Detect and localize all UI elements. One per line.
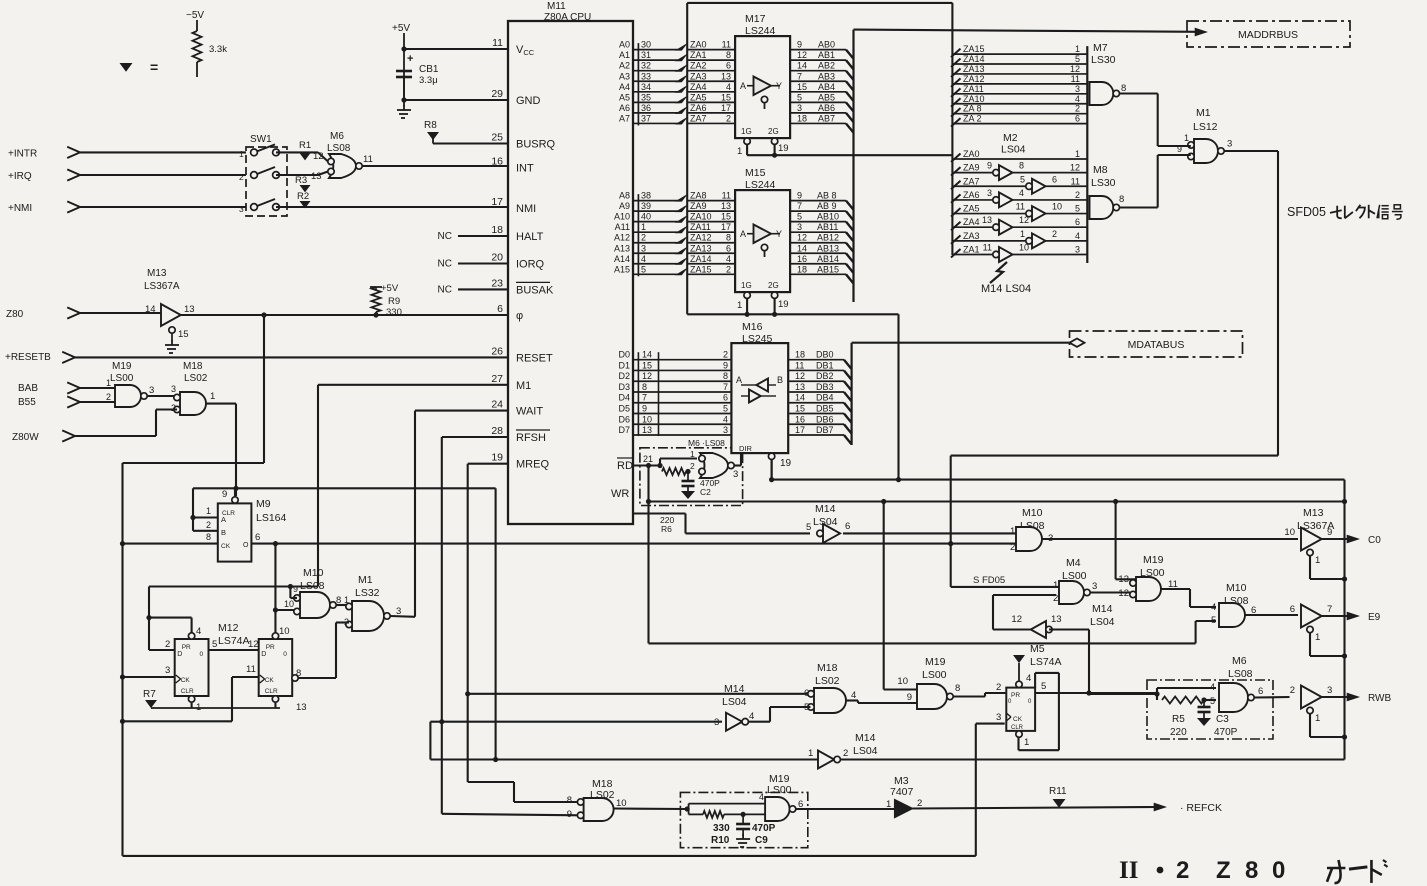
- svg-text:LS00: LS00: [922, 669, 947, 681]
- svg-text:1: 1: [1020, 229, 1025, 239]
- svg-text:R7: R7: [143, 689, 156, 700]
- svg-text:SFD05: SFD05: [1287, 205, 1326, 219]
- svg-text:35: 35: [641, 92, 651, 102]
- svg-text:M14: M14: [815, 503, 836, 515]
- svg-text:1: 1: [1184, 133, 1189, 143]
- svg-text:A15: A15: [614, 264, 630, 274]
- svg-text:ZA4: ZA4: [690, 82, 707, 92]
- svg-text:7407: 7407: [890, 786, 914, 798]
- svg-text:ZA3: ZA3: [963, 231, 980, 241]
- svg-text:CLR: CLR: [181, 688, 194, 695]
- svg-text:4: 4: [1075, 231, 1080, 241]
- svg-text:PR: PR: [266, 644, 275, 651]
- svg-text:18: 18: [795, 350, 805, 360]
- svg-text:13: 13: [1118, 574, 1129, 585]
- svg-text:A14: A14: [614, 254, 630, 264]
- svg-text:AB14: AB14: [817, 254, 839, 264]
- svg-text:D5: D5: [618, 404, 630, 414]
- svg-text:+5V: +5V: [381, 283, 399, 294]
- svg-text:LS367A: LS367A: [144, 281, 180, 292]
- svg-text:25: 25: [491, 132, 503, 144]
- svg-text:LS02: LS02: [184, 373, 208, 384]
- svg-text:14: 14: [642, 350, 652, 360]
- svg-text:19: 19: [780, 458, 792, 469]
- svg-text:A: A: [736, 375, 742, 385]
- svg-text:8: 8: [1121, 83, 1126, 94]
- svg-text:R9: R9: [388, 296, 400, 307]
- svg-text:1: 1: [690, 449, 695, 459]
- svg-text:M9: M9: [256, 498, 271, 510]
- svg-text:A2: A2: [619, 61, 630, 71]
- svg-text:28: 28: [491, 425, 503, 437]
- svg-text:ZA 2: ZA 2: [963, 114, 982, 124]
- svg-text:M18: M18: [183, 361, 203, 372]
- svg-text:+RESETB: +RESETB: [5, 352, 51, 363]
- svg-text:M10: M10: [303, 567, 324, 579]
- svg-text:16: 16: [797, 254, 807, 264]
- svg-text:0: 0: [1272, 857, 1285, 884]
- svg-text:1: 1: [1053, 580, 1058, 591]
- svg-text:12: 12: [642, 371, 652, 381]
- svg-text:9: 9: [723, 360, 728, 370]
- svg-text:17: 17: [721, 103, 731, 113]
- svg-text:10: 10: [284, 599, 294, 609]
- svg-text:8: 8: [642, 382, 647, 392]
- svg-text:8: 8: [1119, 194, 1124, 205]
- svg-text:4: 4: [749, 711, 754, 722]
- svg-text:3: 3: [1075, 244, 1080, 254]
- svg-text:SW1: SW1: [250, 134, 272, 145]
- svg-text:3.3k: 3.3k: [209, 44, 227, 55]
- svg-text:NC: NC: [438, 231, 452, 242]
- svg-text:5: 5: [212, 639, 217, 650]
- svg-text:3: 3: [1327, 685, 1332, 696]
- svg-text:R10: R10: [711, 835, 730, 846]
- svg-text:M14: M14: [724, 683, 745, 695]
- svg-text:19: 19: [778, 143, 789, 154]
- svg-text:LS00: LS00: [767, 784, 792, 796]
- svg-text:AB4: AB4: [818, 82, 835, 92]
- svg-text:6: 6: [1290, 604, 1295, 615]
- svg-text:4: 4: [1075, 94, 1080, 104]
- svg-text:16: 16: [795, 414, 805, 424]
- svg-text:9: 9: [1327, 527, 1332, 538]
- svg-text:NMI: NMI: [516, 203, 536, 215]
- svg-text:D: D: [261, 651, 266, 658]
- svg-text:14: 14: [797, 61, 807, 71]
- svg-text:INT: INT: [516, 163, 534, 175]
- svg-text:13: 13: [982, 215, 992, 225]
- svg-text:1: 1: [1315, 555, 1320, 566]
- svg-text:3: 3: [1092, 581, 1097, 592]
- svg-text:15: 15: [721, 92, 731, 102]
- svg-text:11: 11: [1071, 176, 1080, 186]
- svg-text:ZA9: ZA9: [690, 201, 707, 211]
- svg-text:DB1: DB1: [816, 360, 834, 370]
- svg-text:5: 5: [1020, 174, 1025, 184]
- svg-text:ZA 8: ZA 8: [963, 104, 982, 114]
- svg-text:AB5: AB5: [818, 92, 835, 102]
- svg-text:D2: D2: [618, 371, 630, 381]
- svg-text:11: 11: [246, 664, 256, 675]
- svg-text:RESET: RESET: [516, 352, 553, 364]
- svg-text:29: 29: [491, 88, 503, 100]
- svg-text:RD: RD: [617, 460, 633, 472]
- svg-text:2: 2: [1010, 542, 1015, 553]
- svg-text:13: 13: [642, 425, 652, 435]
- svg-text:39: 39: [641, 201, 651, 211]
- svg-text:1: 1: [1315, 713, 1320, 724]
- svg-text:6: 6: [497, 303, 503, 315]
- svg-text:M5: M5: [1030, 643, 1045, 655]
- svg-text:4: 4: [1210, 682, 1215, 692]
- svg-text:M2: M2: [1003, 132, 1018, 144]
- svg-text:32: 32: [641, 61, 651, 71]
- svg-text:A3: A3: [619, 71, 630, 81]
- svg-text:M14: M14: [855, 732, 876, 744]
- svg-text:8: 8: [1245, 857, 1258, 884]
- svg-text:M11: M11: [547, 1, 566, 12]
- svg-text:1: 1: [886, 799, 891, 810]
- svg-text:37: 37: [641, 113, 651, 123]
- svg-text:3: 3: [641, 243, 646, 253]
- svg-text:LS74A: LS74A: [218, 635, 250, 647]
- svg-text:AB11: AB11: [817, 222, 838, 232]
- svg-text:1: 1: [239, 149, 244, 159]
- svg-text:R2: R2: [297, 191, 309, 202]
- svg-text:5: 5: [1075, 54, 1080, 64]
- svg-text:2: 2: [1075, 104, 1080, 114]
- svg-text:2: 2: [1052, 229, 1057, 239]
- svg-text:ZA8: ZA8: [690, 191, 707, 201]
- svg-text:13: 13: [1051, 614, 1062, 625]
- svg-text:LS244: LS244: [745, 179, 776, 191]
- svg-text:3: 3: [987, 188, 992, 198]
- svg-text:40: 40: [641, 212, 651, 222]
- svg-text:O: O: [243, 542, 249, 549]
- svg-text:12: 12: [1019, 215, 1029, 225]
- svg-text:PR: PR: [1011, 692, 1020, 699]
- svg-text:9: 9: [222, 489, 227, 500]
- svg-text:19: 19: [778, 299, 789, 310]
- svg-text:DB5: DB5: [816, 404, 834, 414]
- svg-text:11: 11: [1016, 202, 1025, 212]
- svg-text:15: 15: [797, 82, 807, 92]
- svg-text:ZA7: ZA7: [690, 113, 707, 123]
- svg-text:AB 9: AB 9: [817, 201, 837, 211]
- svg-text:5: 5: [806, 522, 811, 533]
- svg-text:M18: M18: [817, 662, 838, 674]
- svg-text:+5V: +5V: [392, 23, 410, 34]
- svg-text:ZA12: ZA12: [963, 74, 985, 84]
- svg-text:LS32: LS32: [355, 587, 380, 599]
- svg-text:6: 6: [1075, 114, 1080, 124]
- svg-text:LS00: LS00: [110, 373, 134, 384]
- svg-text:BUSAK: BUSAK: [516, 284, 554, 296]
- svg-text:AB10: AB10: [817, 212, 839, 222]
- svg-text:27: 27: [491, 373, 503, 385]
- svg-text:7: 7: [797, 201, 802, 211]
- svg-text:10: 10: [279, 626, 290, 637]
- svg-text:15: 15: [178, 329, 189, 340]
- svg-text:M14 LS04: M14 LS04: [981, 283, 1031, 295]
- svg-text:A7: A7: [619, 113, 630, 123]
- svg-text:A13: A13: [614, 243, 630, 253]
- svg-text:10: 10: [642, 414, 652, 424]
- svg-text:A: A: [740, 229, 746, 239]
- svg-text:A12: A12: [614, 233, 630, 243]
- svg-text:D0: D0: [618, 350, 630, 360]
- svg-text:220: 220: [1170, 727, 1187, 738]
- svg-text:6: 6: [1258, 686, 1263, 697]
- svg-text:12: 12: [1011, 614, 1022, 625]
- svg-text:2: 2: [917, 798, 922, 809]
- svg-text:5: 5: [797, 212, 802, 222]
- svg-text:B: B: [221, 528, 226, 537]
- svg-text:3.3μ: 3.3μ: [419, 75, 438, 86]
- svg-text:1: 1: [1024, 737, 1029, 748]
- svg-text:11: 11: [795, 360, 804, 370]
- svg-text:14: 14: [795, 393, 805, 403]
- svg-text:1: 1: [641, 222, 646, 232]
- svg-text:12: 12: [248, 639, 259, 650]
- svg-text:A11: A11: [615, 222, 630, 232]
- svg-text:+NMI: +NMI: [8, 203, 32, 214]
- svg-text:2: 2: [996, 682, 1001, 693]
- svg-text:14: 14: [145, 304, 156, 315]
- svg-text:LS244: LS244: [745, 25, 776, 37]
- svg-text:ZA4: ZA4: [963, 217, 980, 227]
- svg-text:M7: M7: [1093, 42, 1108, 54]
- svg-text:LS04: LS04: [1090, 616, 1115, 628]
- svg-text:ZA7: ZA7: [963, 176, 980, 186]
- svg-text:12: 12: [797, 50, 807, 60]
- svg-text:9: 9: [797, 191, 802, 201]
- svg-text:6: 6: [726, 61, 731, 71]
- svg-text:15: 15: [642, 360, 652, 370]
- svg-text:ZA6: ZA6: [690, 103, 707, 113]
- svg-text:M1: M1: [516, 380, 531, 392]
- svg-text:13: 13: [296, 702, 307, 713]
- svg-text:3: 3: [723, 425, 728, 435]
- svg-text:AB0: AB0: [818, 40, 835, 50]
- svg-text:AB7: AB7: [818, 113, 835, 123]
- svg-text:+IRQ: +IRQ: [8, 171, 32, 182]
- svg-text:RWB: RWB: [1368, 693, 1391, 704]
- svg-text:ZA5: ZA5: [690, 92, 707, 102]
- svg-text:15: 15: [795, 404, 805, 414]
- svg-text:12: 12: [1070, 163, 1080, 173]
- svg-text:9: 9: [987, 161, 992, 171]
- svg-text:3: 3: [797, 103, 802, 113]
- svg-text:PR: PR: [182, 644, 191, 651]
- svg-text:DB4: DB4: [816, 393, 834, 403]
- svg-text:2: 2: [1075, 190, 1080, 200]
- svg-text:M12: M12: [218, 622, 239, 634]
- svg-text:15: 15: [721, 212, 731, 222]
- svg-text:A1: A1: [619, 50, 630, 60]
- svg-text:+: +: [407, 53, 413, 65]
- svg-text:A: A: [740, 81, 746, 91]
- svg-text:7: 7: [797, 71, 802, 81]
- svg-text:4: 4: [1026, 673, 1031, 684]
- svg-text:2G: 2G: [768, 281, 779, 290]
- svg-text:12: 12: [1118, 588, 1129, 599]
- svg-text:BUSRQ: BUSRQ: [516, 139, 556, 151]
- svg-text:A5: A5: [619, 92, 630, 102]
- svg-text:0: 0: [200, 651, 204, 658]
- svg-text:AB3: AB3: [818, 71, 835, 81]
- svg-text:3: 3: [733, 469, 738, 480]
- svg-text:M1: M1: [358, 574, 373, 586]
- svg-text:R3: R3: [295, 175, 307, 186]
- svg-text:14: 14: [797, 243, 807, 253]
- svg-text:E9: E9: [1368, 612, 1381, 623]
- svg-text:MREQ: MREQ: [516, 459, 549, 471]
- svg-text:A4: A4: [619, 82, 630, 92]
- svg-text:CK: CK: [1013, 716, 1023, 723]
- svg-text:7: 7: [723, 382, 728, 392]
- svg-text:M6: M6: [330, 131, 344, 142]
- svg-text:2: 2: [690, 461, 695, 471]
- svg-text:9: 9: [642, 404, 647, 414]
- svg-text:MDATABUS: MDATABUS: [1128, 339, 1185, 351]
- svg-text:D7: D7: [618, 425, 630, 435]
- svg-text:1G: 1G: [741, 281, 752, 290]
- svg-text:3: 3: [1075, 84, 1080, 94]
- svg-text:4: 4: [759, 792, 764, 802]
- svg-text:23: 23: [491, 277, 503, 289]
- svg-text:A8: A8: [619, 191, 630, 201]
- svg-text:8: 8: [726, 233, 731, 243]
- svg-text:Z80W: Z80W: [12, 432, 39, 443]
- svg-text:5: 5: [1075, 204, 1080, 214]
- svg-text:18: 18: [491, 224, 503, 236]
- svg-text:LS04: LS04: [1001, 144, 1026, 156]
- svg-text:19: 19: [491, 452, 503, 464]
- svg-text:D6: D6: [618, 414, 630, 424]
- svg-text:ZA13: ZA13: [690, 243, 712, 253]
- svg-text:ZA10: ZA10: [963, 94, 985, 104]
- svg-text:−5V: −5V: [186, 10, 204, 21]
- svg-text:470P: 470P: [752, 823, 776, 834]
- svg-text:6: 6: [1052, 174, 1057, 184]
- svg-text:24: 24: [491, 399, 503, 411]
- svg-text:MADDRBUS: MADDRBUS: [1238, 29, 1298, 41]
- svg-text:LS08: LS08: [1228, 668, 1253, 680]
- svg-text:LS04: LS04: [722, 696, 747, 708]
- svg-text:IORQ: IORQ: [516, 259, 545, 271]
- svg-text:4: 4: [726, 254, 731, 264]
- svg-text:5: 5: [1041, 681, 1046, 692]
- svg-text:R8: R8: [424, 120, 437, 131]
- svg-text:A0: A0: [619, 40, 630, 50]
- svg-text:3: 3: [996, 712, 1001, 723]
- svg-text:7: 7: [642, 393, 647, 403]
- svg-text:M1: M1: [1196, 107, 1211, 119]
- svg-text:ZA5: ZA5: [963, 204, 980, 214]
- svg-text:11: 11: [722, 40, 731, 50]
- svg-text:ZA1: ZA1: [963, 244, 980, 254]
- svg-text:R5: R5: [1172, 714, 1185, 725]
- svg-text:D: D: [177, 651, 182, 658]
- svg-text:AB15: AB15: [817, 264, 839, 274]
- svg-text:10: 10: [1019, 242, 1029, 252]
- svg-text:11: 11: [363, 154, 373, 165]
- svg-text:470P: 470P: [1214, 727, 1238, 738]
- svg-text:AB6: AB6: [818, 103, 835, 113]
- svg-text:4: 4: [1019, 188, 1024, 198]
- svg-text:ZA9: ZA9: [963, 163, 980, 173]
- svg-text:13: 13: [311, 171, 322, 182]
- svg-text:ZA15: ZA15: [690, 264, 712, 274]
- svg-text:2: 2: [106, 392, 111, 402]
- svg-text:LS30: LS30: [1091, 54, 1116, 66]
- svg-text:M15: M15: [745, 167, 766, 179]
- svg-text:R6: R6: [661, 524, 672, 534]
- svg-text:DB7: DB7: [816, 425, 834, 435]
- svg-text:2: 2: [726, 113, 731, 123]
- svg-text:ZA15: ZA15: [963, 44, 985, 54]
- svg-text:ZA0: ZA0: [690, 40, 707, 50]
- svg-text:CLR: CLR: [265, 688, 278, 695]
- svg-text:1: 1: [206, 506, 211, 516]
- svg-text:M19: M19: [925, 656, 946, 668]
- svg-text:B55: B55: [18, 397, 36, 408]
- svg-text:CK: CK: [265, 677, 275, 684]
- svg-text:M19: M19: [1143, 554, 1164, 566]
- svg-text:2: 2: [641, 233, 646, 243]
- svg-text:AB 8: AB 8: [817, 191, 837, 201]
- svg-text:φ: φ: [516, 310, 523, 322]
- svg-text:9: 9: [907, 692, 912, 703]
- svg-text:4: 4: [851, 690, 856, 701]
- svg-text:3: 3: [165, 665, 170, 676]
- svg-text:LS04: LS04: [853, 745, 878, 757]
- svg-text:5: 5: [641, 264, 646, 274]
- svg-text:AB12: AB12: [817, 233, 839, 243]
- svg-text:AB13: AB13: [817, 243, 839, 253]
- svg-text:ZA13: ZA13: [963, 64, 985, 74]
- svg-text:CLR: CLR: [1011, 725, 1024, 731]
- svg-text:9: 9: [797, 40, 802, 50]
- svg-text:10: 10: [897, 676, 908, 687]
- svg-text:M17: M17: [745, 13, 766, 25]
- svg-text:6: 6: [1075, 217, 1080, 227]
- svg-text:M16: M16: [742, 321, 763, 333]
- svg-text:4: 4: [726, 82, 731, 92]
- svg-text:ZA1: ZA1: [690, 50, 707, 60]
- svg-text:HALT: HALT: [516, 231, 544, 243]
- svg-text:1: 1: [1315, 632, 1320, 643]
- svg-text:WAIT: WAIT: [516, 406, 543, 418]
- svg-text:A9: A9: [619, 201, 630, 211]
- svg-text:Z80: Z80: [6, 309, 24, 320]
- svg-text:6: 6: [845, 521, 850, 532]
- svg-text:LS02: LS02: [815, 675, 840, 687]
- svg-text:ZA3: ZA3: [690, 71, 707, 81]
- svg-text:36: 36: [641, 103, 651, 113]
- svg-text:ZA11: ZA11: [690, 222, 711, 232]
- svg-text:GND: GND: [516, 95, 541, 107]
- svg-text:3: 3: [714, 717, 719, 728]
- svg-text:ZA10: ZA10: [690, 212, 712, 222]
- svg-text:AB1: AB1: [818, 50, 835, 60]
- svg-text:26: 26: [491, 345, 503, 357]
- svg-text:0: 0: [283, 651, 287, 658]
- svg-text:4: 4: [641, 254, 646, 264]
- svg-text:5: 5: [1211, 615, 1216, 626]
